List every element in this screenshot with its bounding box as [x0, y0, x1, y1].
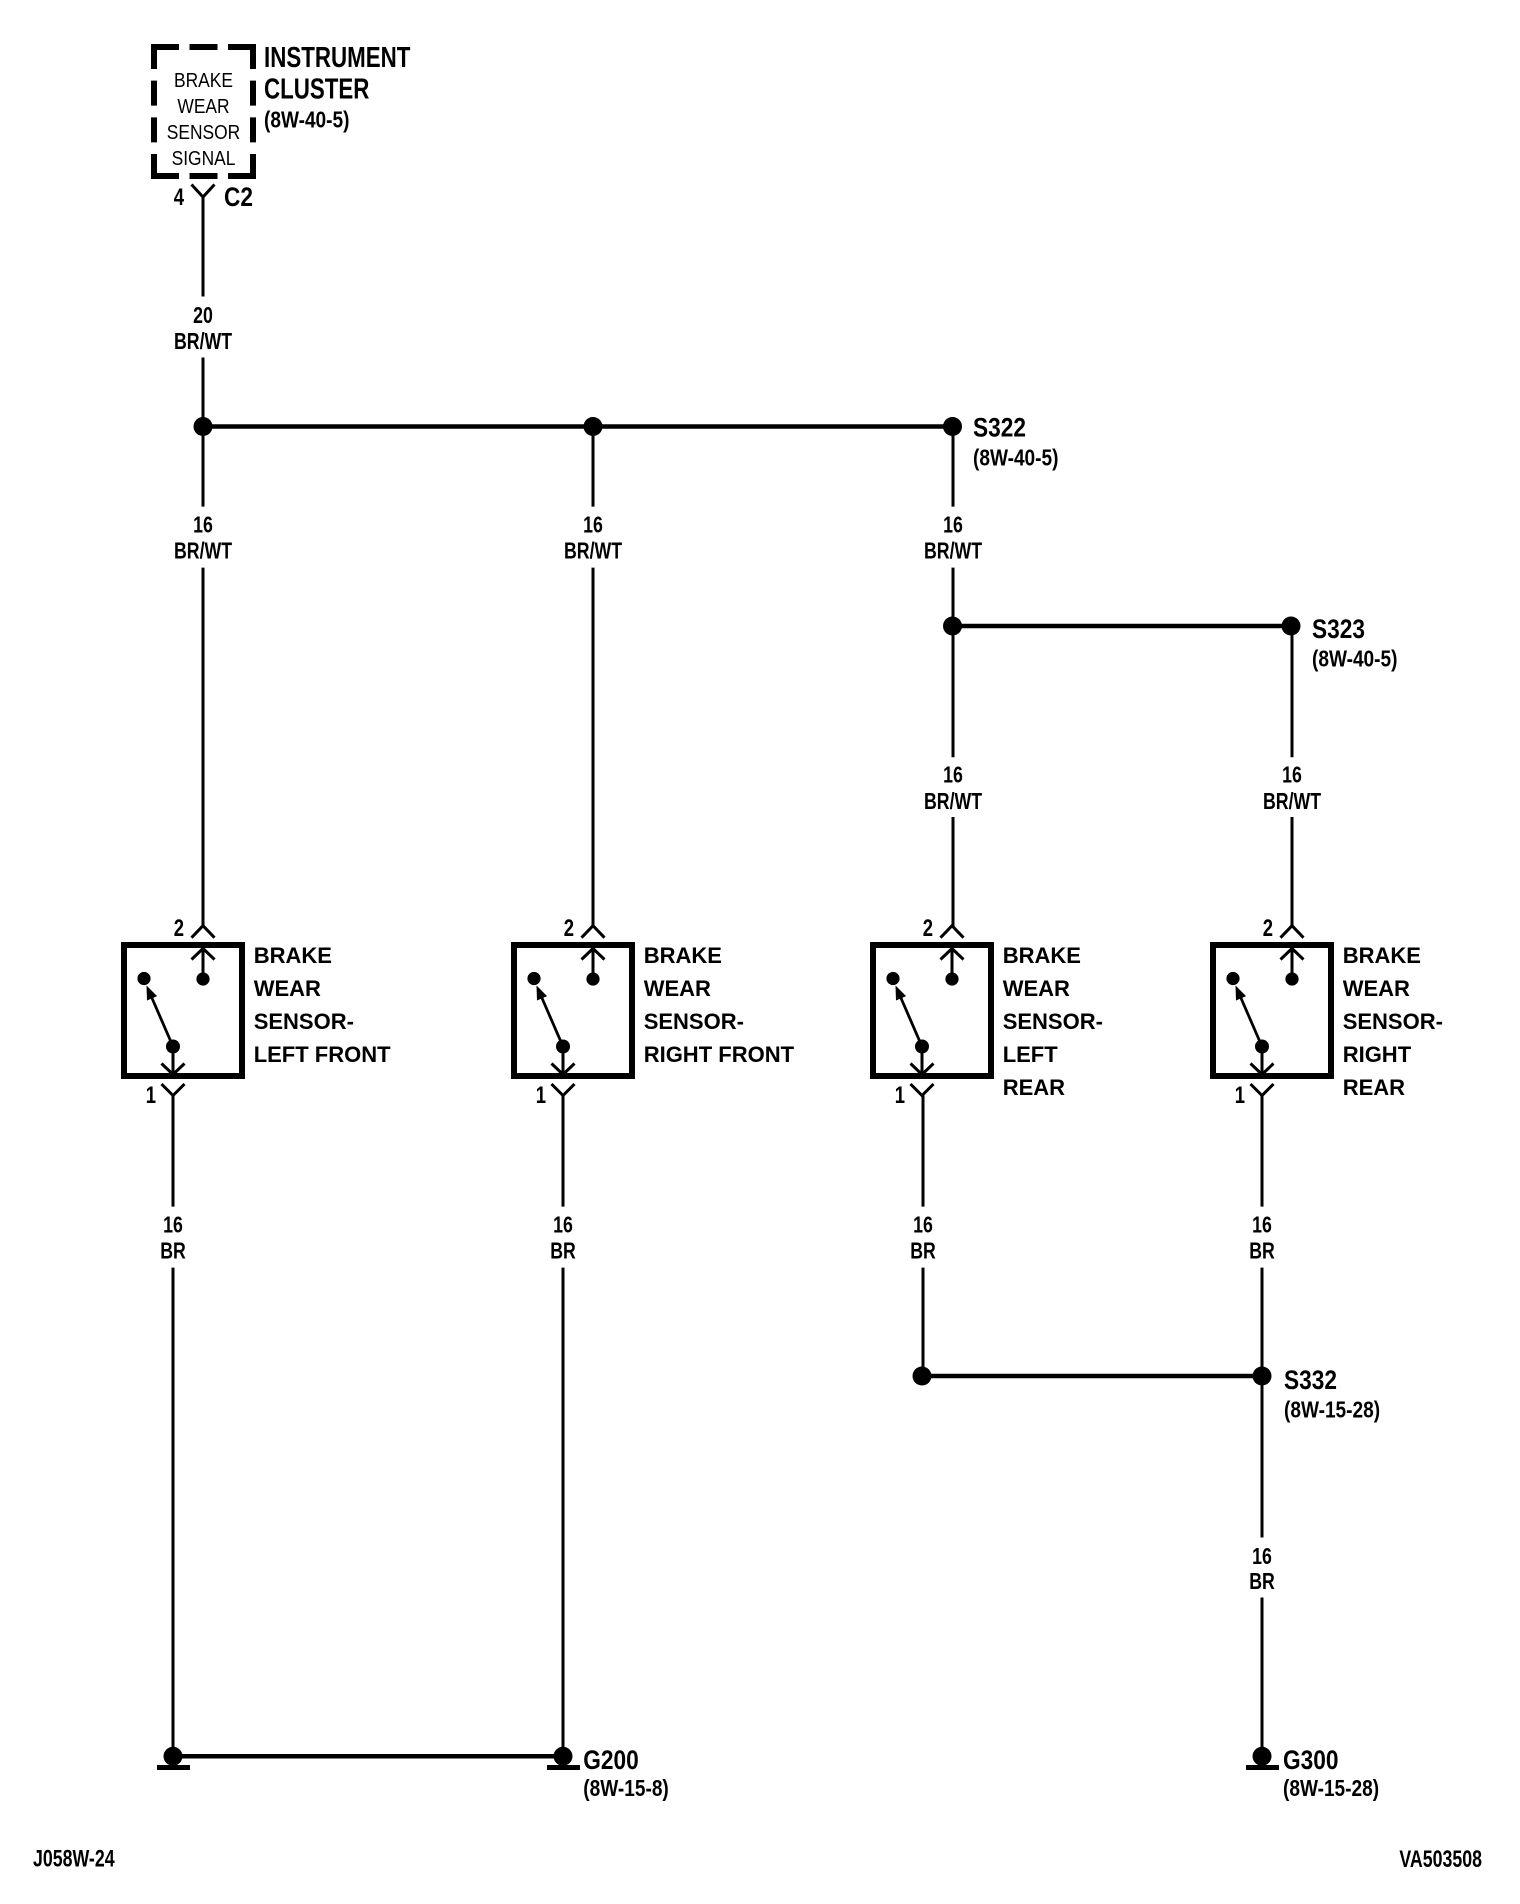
- label right rear: [1343, 943, 1443, 1100]
- wire 16 BR/WT column D below S323 upper segment: [1291, 626, 1294, 757]
- wire 16 BR (S332 to G300) lower segment: [1261, 1598, 1264, 1749]
- value 16 BR/WT column C upper: [924, 512, 982, 564]
- wire 16 BR column C upper segment: [922, 1096, 925, 1207]
- wire 16 BR column A upper segment: [172, 1096, 175, 1207]
- wire 16 BR column B lower segment: [562, 1268, 565, 1748]
- label S323 (8W-40-5): [1312, 614, 1397, 672]
- svg-text:BR: BR: [1249, 1239, 1275, 1265]
- value 16 BR/WT column B: [564, 512, 622, 564]
- brake wear sensor left rear: [873, 945, 991, 1076]
- wire 16 BR column A lower segment: [172, 1268, 175, 1748]
- ground symbol G200 (col B): [547, 1747, 580, 1768]
- svg-text:2: 2: [1263, 915, 1273, 942]
- svg-text:16: 16: [163, 1212, 183, 1238]
- junction S322: [943, 417, 962, 436]
- label right front: [644, 943, 795, 1067]
- svg-text:16: 16: [553, 1212, 573, 1238]
- connector fork pin 1 of right rear: [1251, 1084, 1274, 1096]
- splice S322 bus: [203, 424, 953, 429]
- svg-text:16: 16: [1282, 762, 1302, 788]
- value 16 BR column A: [160, 1212, 186, 1264]
- connector fork pin 1 of right front: [552, 1084, 575, 1096]
- label S322 (8W-40-5): [973, 413, 1058, 471]
- svg-text:LEFT FRONT: LEFT FRONT: [254, 1042, 391, 1067]
- svg-text:16: 16: [193, 512, 213, 538]
- wire 16 BR (S332 to G300) upper segment: [1261, 1376, 1264, 1538]
- svg-text:16: 16: [913, 1212, 933, 1238]
- brake wear sensor left front: [124, 945, 242, 1076]
- junction S323: [1282, 617, 1301, 636]
- junction S332: [1253, 1367, 1272, 1386]
- svg-text:REAR: REAR: [1003, 1075, 1065, 1100]
- svg-text:S332: S332: [1284, 1365, 1337, 1395]
- label left rear: [1003, 943, 1103, 1100]
- svg-text:WEAR: WEAR: [1003, 976, 1070, 1001]
- svg-text:SIGNAL: SIGNAL: [172, 147, 236, 169]
- wire 20 BR/WT lower segment: [202, 358, 205, 427]
- connector fork pin 2 of left rear: [941, 926, 964, 938]
- svg-text:16: 16: [583, 512, 603, 538]
- svg-text:SENSOR-: SENSOR-: [254, 1009, 354, 1034]
- svg-text:REAR: REAR: [1343, 1075, 1405, 1100]
- svg-text:BR/WT: BR/WT: [174, 539, 232, 565]
- brake wear sensor right rear: [1213, 945, 1331, 1076]
- connector fork pin 1 of left front: [162, 1084, 185, 1096]
- svg-text:INSTRUMENT: INSTRUMENT: [264, 42, 411, 73]
- wire 16 BR/WT column B lower segment: [592, 568, 595, 926]
- svg-text:2: 2: [174, 915, 184, 942]
- svg-text:1: 1: [895, 1082, 905, 1109]
- svg-text:16: 16: [1252, 1544, 1272, 1570]
- wire 16 BR/WT column B upper segment: [592, 427, 595, 507]
- connector fork pin 1 of left rear: [911, 1084, 934, 1096]
- svg-text:16: 16: [943, 762, 963, 788]
- splice S332 bus: [922, 1374, 1262, 1379]
- svg-text:2: 2: [564, 915, 574, 942]
- connector fork pin 2 of left front: [192, 926, 215, 938]
- svg-text:LEFT: LEFT: [1003, 1042, 1059, 1067]
- svg-text:RIGHT: RIGHT: [1343, 1042, 1412, 1067]
- value 16 BR/WT column D: [1263, 762, 1321, 814]
- value 20 BR/WT: [174, 303, 232, 355]
- splice S323 bus: [953, 624, 1292, 629]
- svg-text:BRAKE: BRAKE: [254, 943, 332, 968]
- svg-text:SENSOR-: SENSOR-: [644, 1009, 744, 1034]
- connector fork pin 2 of right rear: [1281, 926, 1304, 938]
- svg-text:BRAKE: BRAKE: [174, 69, 233, 91]
- svg-text:BR: BR: [1249, 1569, 1275, 1595]
- svg-text:S323: S323: [1312, 614, 1365, 644]
- value 16 BR column C: [910, 1212, 936, 1264]
- svg-text:G200: G200: [583, 1745, 638, 1775]
- label INSTRUMENT CLUSTER (8W-40-5): [264, 42, 411, 133]
- svg-text:WEAR: WEAR: [1343, 976, 1410, 1001]
- wire 16 BR/WT column D lower segment: [1291, 817, 1294, 926]
- svg-text:BR/WT: BR/WT: [924, 789, 982, 815]
- svg-text:(8W-40-5): (8W-40-5): [973, 446, 1058, 471]
- wire 16 BR column C lower segment: [922, 1268, 925, 1367]
- label S332 (8W-15-28): [1284, 1365, 1380, 1423]
- svg-text:S322: S322: [973, 413, 1026, 443]
- value 16 BR/WT column A: [174, 512, 232, 564]
- junction at S323 col C: [943, 617, 962, 636]
- value 16 BR column D: [1249, 1212, 1275, 1264]
- ground bus G200: [173, 1754, 563, 1759]
- wire 16 BR/WT column C below S323 upper segment: [952, 626, 955, 757]
- svg-text:16: 16: [943, 512, 963, 538]
- value 16 BR column B: [550, 1212, 576, 1264]
- svg-text:BRAKE: BRAKE: [1343, 943, 1421, 968]
- svg-text:(8W-15-8): (8W-15-8): [583, 1776, 668, 1801]
- svg-text:1: 1: [146, 1082, 156, 1109]
- svg-text:BR/WT: BR/WT: [564, 539, 622, 565]
- svg-text:C2: C2: [224, 182, 253, 212]
- svg-text:BR: BR: [160, 1239, 186, 1265]
- svg-text:BR/WT: BR/WT: [1263, 789, 1321, 815]
- wire 16 BR column B upper segment: [562, 1096, 565, 1207]
- svg-text:(8W-40-5): (8W-40-5): [1312, 647, 1397, 672]
- wire 16 BR column D upper segment: [1261, 1096, 1264, 1207]
- svg-text:2: 2: [923, 915, 933, 942]
- wire 16 BR column D to S332: [1261, 1268, 1264, 1376]
- label G300 (8W-15-28): [1283, 1745, 1379, 1801]
- label G200 (8W-15-8): [583, 1745, 668, 1801]
- svg-text:BR: BR: [910, 1239, 936, 1265]
- value 16 BR (S332 to G300): [1249, 1544, 1275, 1595]
- junction at S322 col A: [194, 417, 213, 436]
- svg-text:CLUSTER: CLUSTER: [264, 74, 370, 105]
- wire column C to S323: [952, 568, 955, 626]
- svg-text:WEAR: WEAR: [177, 95, 229, 117]
- wire 16 BR/WT column C (S322 to S323): [952, 427, 955, 507]
- svg-text:(8W-40-5): (8W-40-5): [264, 108, 349, 133]
- wire 16 BR/WT column A upper segment: [202, 427, 205, 507]
- wire 20 BR/WT (C2 to S322) upper segment: [202, 197, 205, 297]
- brake wear sensor right front: [514, 945, 632, 1076]
- svg-text:1: 1: [536, 1082, 546, 1109]
- svg-text:BRAKE: BRAKE: [1003, 943, 1081, 968]
- svg-text:SENSOR: SENSOR: [167, 121, 240, 143]
- ground symbol G300: [1246, 1747, 1279, 1768]
- wire 16 BR/WT column A lower segment: [202, 568, 205, 926]
- label left front: [254, 943, 391, 1067]
- svg-text:VA503508: VA503508: [1399, 1846, 1482, 1872]
- junction at S322 col B: [584, 417, 603, 436]
- svg-text:20: 20: [193, 303, 213, 329]
- svg-text:J058W-24: J058W-24: [33, 1846, 115, 1872]
- svg-text:G300: G300: [1283, 1745, 1338, 1775]
- junction at S332 col C: [913, 1367, 932, 1386]
- svg-text:SENSOR-: SENSOR-: [1003, 1009, 1103, 1034]
- svg-text:4: 4: [174, 184, 184, 211]
- value 16 BR/WT column C: [924, 762, 982, 814]
- svg-text:SENSOR-: SENSOR-: [1343, 1009, 1443, 1034]
- svg-text:BR/WT: BR/WT: [174, 329, 232, 355]
- svg-text:BRAKE: BRAKE: [644, 943, 722, 968]
- ground symbol G200 left (col A): [157, 1747, 190, 1768]
- connector C2 fork: [192, 185, 215, 198]
- svg-text:16: 16: [1252, 1212, 1272, 1238]
- svg-text:(8W-15-28): (8W-15-28): [1283, 1776, 1379, 1801]
- wire 16 BR/WT column C lower segment: [952, 817, 955, 926]
- connector fork pin 2 of right front: [582, 926, 605, 938]
- svg-text:WEAR: WEAR: [254, 976, 321, 1001]
- svg-text:(8W-15-28): (8W-15-28): [1284, 1398, 1380, 1423]
- instrument cluster (dashed box): [151, 44, 256, 179]
- svg-text:1: 1: [1235, 1082, 1245, 1109]
- svg-text:BR/WT: BR/WT: [924, 539, 982, 565]
- svg-text:BR: BR: [550, 1239, 576, 1265]
- svg-text:RIGHT FRONT: RIGHT FRONT: [644, 1042, 795, 1067]
- svg-text:WEAR: WEAR: [644, 976, 711, 1001]
